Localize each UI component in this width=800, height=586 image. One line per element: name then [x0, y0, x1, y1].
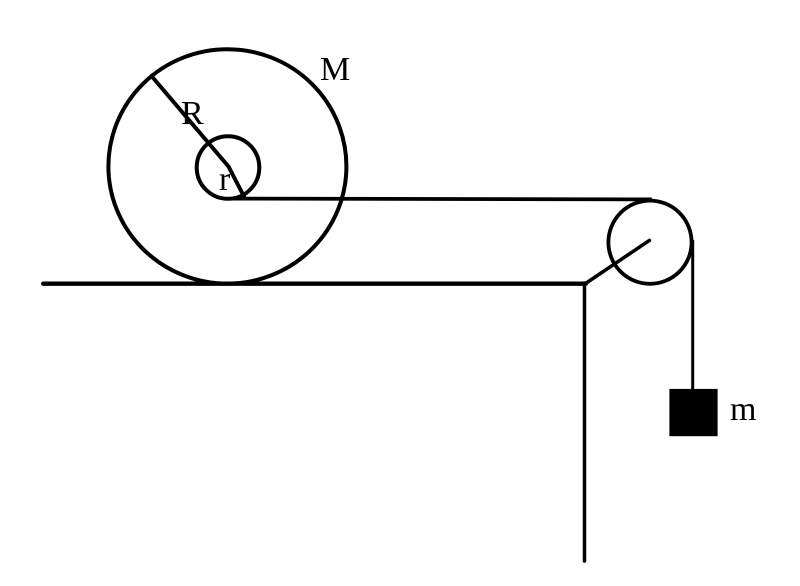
horizontal string [231, 197, 651, 201]
table top line [43, 282, 586, 286]
pulley circle [608, 201, 691, 284]
table edge vertical line [583, 283, 587, 561]
spool r inner circle [197, 136, 260, 199]
radius r segment [229, 167, 245, 197]
vertical string [691, 240, 694, 389]
radius R line [152, 76, 229, 167]
svg-text:r: r [219, 161, 231, 198]
svg-text:R: R [181, 95, 204, 132]
wheel M outer circle [108, 49, 346, 283]
mass m square [669, 389, 717, 436]
svg-text:M: M [320, 51, 350, 88]
svg-text:m: m [730, 391, 756, 428]
pulley support arm [586, 240, 650, 283]
